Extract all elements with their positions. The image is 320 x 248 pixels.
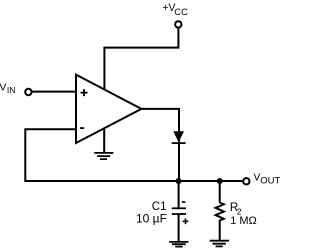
svg-text:V: V bbox=[0, 82, 6, 94]
svg-text:1 MΩ: 1 MΩ bbox=[230, 215, 257, 227]
svg-text:CC: CC bbox=[174, 7, 188, 18]
svg-text:IN: IN bbox=[7, 85, 16, 95]
svg-text:OUT: OUT bbox=[260, 176, 280, 187]
svg-text:10 µF: 10 µF bbox=[136, 211, 167, 225]
